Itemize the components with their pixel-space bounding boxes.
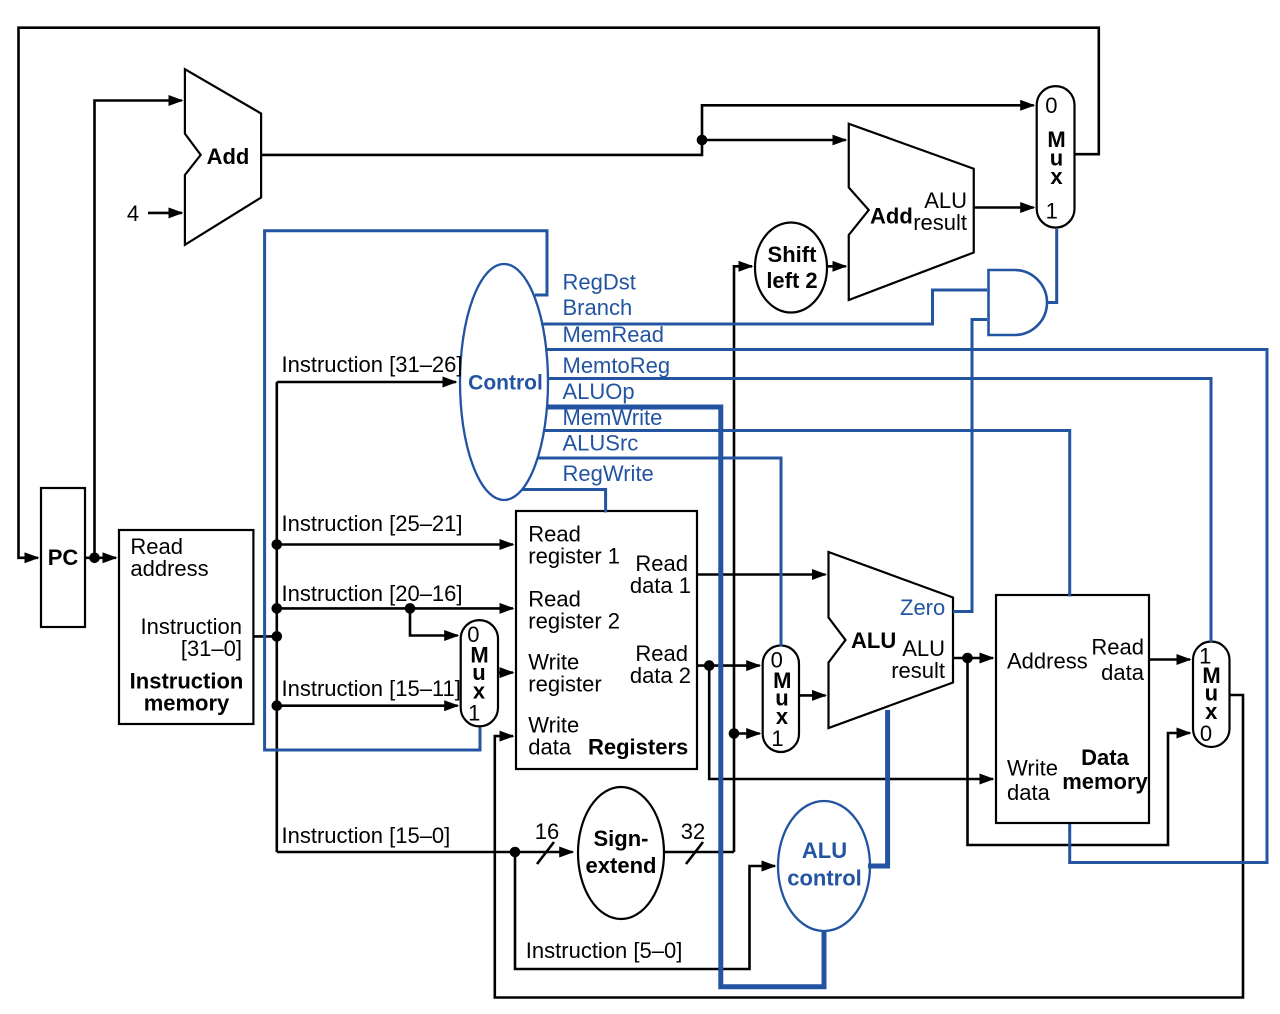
wire: ALU result to data memory Address	[953, 657, 993, 660]
svg-text:data: data	[528, 735, 572, 760]
svg-text:MemRead: MemRead	[563, 322, 664, 347]
wire: ALUSrc to mux M4 select	[538, 458, 781, 647]
wire: Read data to mux M6 input 1	[1149, 658, 1190, 661]
wire: Branch to AND gate	[541, 290, 987, 324]
svg-text:memory: memory	[144, 691, 230, 716]
junction: bus Instruction [25-21]	[272, 539, 283, 550]
wire: to mux M4 input 1	[734, 732, 760, 735]
wire: Instruction [15-11] to mux M5 input 1	[277, 704, 458, 707]
registers	[516, 511, 697, 769]
svg-text:data: data	[1007, 780, 1051, 805]
svg-text:data: data	[1101, 660, 1145, 685]
svg-text:Add: Add	[870, 204, 913, 229]
ALU control	[778, 801, 870, 931]
svg-text:16: 16	[535, 819, 559, 844]
svg-text:data 2: data 2	[630, 663, 691, 688]
svg-text:Instruction [20–16]: Instruction [20–16]	[282, 581, 463, 606]
junction: Instruction [20-16] branch	[405, 603, 416, 614]
shift left 2	[755, 223, 827, 313]
wire: PC to instruction memory	[85, 556, 116, 559]
wire: constant 4 into Add	[148, 212, 182, 215]
wire: Read data 2 to data memory Write data	[709, 666, 993, 779]
svg-text:Instruction [15–0]: Instruction [15–0]	[282, 823, 451, 848]
svg-text:MemtoReg: MemtoReg	[563, 353, 671, 378]
svg-text:left 2: left 2	[766, 268, 817, 293]
svg-text:Zero: Zero	[900, 595, 945, 620]
wire: Instruction [20-16] to Read register 2	[277, 607, 513, 610]
control unit	[460, 264, 548, 500]
wire: MemWrite to data memory	[544, 431, 1070, 597]
mux M4 (ALU source mux)	[763, 646, 799, 753]
svg-text:Instruction [15–11]: Instruction [15–11]	[282, 676, 461, 701]
wire: sign-extend to shift left 2	[734, 266, 752, 852]
wire: MemtoReg to mux M6 select	[547, 379, 1211, 643]
svg-text:MemWrite: MemWrite	[563, 405, 663, 430]
svg-text:ALU: ALU	[802, 838, 847, 863]
junction: PC output	[89, 553, 100, 564]
data memory	[996, 595, 1149, 823]
wire: Instruction [31-26] to Control	[277, 381, 456, 384]
wire: Read data 1 to ALU	[697, 573, 826, 576]
wire: RegDst to mux M5 select	[265, 231, 547, 750]
sign-extend	[578, 787, 664, 919]
mux M6 (write-back mux)	[1193, 642, 1230, 748]
svg-text:register 2: register 2	[528, 609, 620, 634]
adder Add2 (branch target)	[849, 124, 974, 300]
svg-text:ALU: ALU	[851, 628, 896, 653]
junction: bus Instruction [15-11]	[272, 700, 283, 711]
svg-text:register: register	[528, 672, 601, 697]
wire: Add output PC+4 to mux M1 input 0	[261, 105, 1034, 155]
wire: MemRead to data memory	[545, 350, 1267, 863]
svg-text:Instruction [25–21]: Instruction [25–21]	[282, 511, 463, 536]
mux M5 (write register mux)	[461, 620, 498, 726]
wire: AND gate to mux M1 select	[1047, 229, 1057, 303]
svg-text:0: 0	[1200, 721, 1212, 746]
svg-text:Read: Read	[1091, 635, 1144, 660]
wire: sign-extend output	[664, 851, 734, 854]
svg-text:memory: memory	[1062, 769, 1148, 794]
wire: instruction memory output	[253, 635, 276, 638]
svg-text:Write: Write	[1007, 756, 1058, 781]
wire: instruction bus vertical	[275, 382, 278, 852]
wire: mux M6 output write-back to Write data	[495, 695, 1243, 998]
svg-text:Instruction [31–26]: Instruction [31–26]	[282, 352, 463, 377]
svg-text:Add: Add	[207, 144, 250, 169]
svg-text:1: 1	[1046, 198, 1058, 223]
junction: sign-extend branch to mux M4	[729, 728, 740, 739]
wire: Zero to AND gate	[953, 320, 987, 612]
wire: ALU control to ALU (thick)	[868, 710, 888, 866]
svg-text:result: result	[891, 658, 945, 683]
svg-text:Control: Control	[468, 372, 543, 395]
and gate	[989, 270, 1048, 335]
junction: Read data 2 branch	[704, 660, 715, 671]
svg-text:Shift: Shift	[768, 242, 818, 267]
wire: ALUOp to ALU control (thick)	[546, 407, 824, 987]
bus width slash 32	[686, 842, 703, 864]
ALU	[829, 552, 954, 728]
wire: PC+4 to Add2 top input	[702, 139, 846, 142]
svg-text:RegWrite: RegWrite	[563, 461, 654, 486]
svg-text:address: address	[130, 556, 208, 581]
junction: bus at IM output	[272, 631, 283, 642]
PC	[41, 488, 85, 627]
junction: ALU result branch	[962, 653, 973, 664]
svg-text:0: 0	[1045, 93, 1057, 118]
svg-text:control: control	[787, 866, 862, 891]
wire: mux M1 output to PC (top frame loop)	[19, 28, 1099, 558]
svg-text:ALUOp: ALUOp	[563, 379, 635, 404]
wire: Instruction [20-16] to mux M5 input 0	[410, 608, 458, 635]
svg-text:32: 32	[681, 819, 705, 844]
mux M1 (PC source mux)	[1037, 86, 1075, 228]
svg-text:ALUSrc: ALUSrc	[563, 430, 639, 455]
junction: bus Instruction [20-16]	[272, 603, 283, 614]
svg-text:Branch: Branch	[563, 295, 633, 320]
svg-text:1: 1	[771, 726, 783, 751]
wire: RegWrite to registers	[522, 490, 606, 513]
svg-text:data 1: data 1	[630, 573, 691, 598]
junction: Instruction [15-0] branch	[510, 847, 521, 858]
svg-text:1: 1	[468, 700, 480, 725]
svg-text:Instruction [5–0]: Instruction [5–0]	[526, 938, 683, 963]
adder Add (PC+4)	[185, 69, 261, 245]
svg-text:[31–0]: [31–0]	[181, 636, 242, 661]
svg-text:4: 4	[127, 201, 139, 226]
wire: mux M4 to ALU	[799, 694, 826, 697]
wire: Add2 output to mux M1 input 1	[974, 206, 1034, 209]
wire: PC up to Add	[95, 101, 182, 558]
wire: Instruction [5-0] to ALU control	[515, 852, 775, 969]
svg-text:extend: extend	[586, 853, 657, 878]
svg-text:PC: PC	[48, 545, 79, 570]
svg-text:register 1: register 1	[528, 544, 620, 569]
svg-text:Sign-: Sign-	[594, 826, 649, 851]
svg-text:RegDst: RegDst	[563, 269, 636, 294]
svg-text:Data: Data	[1081, 745, 1129, 770]
wire: ALU result to mux M6 input 0	[968, 658, 1191, 845]
junction: PC+4 branch	[697, 135, 708, 146]
svg-text:Registers: Registers	[588, 735, 688, 760]
svg-text:x: x	[1050, 164, 1063, 189]
wire: mux M5 to Write register	[498, 671, 513, 674]
bus width slash 16	[537, 842, 554, 864]
svg-text:Address: Address	[1007, 649, 1088, 674]
wire: Instruction [25-21] to Read register 1	[277, 543, 513, 546]
wire: Instruction [15-0] to sign-extend	[277, 851, 573, 854]
svg-text:result: result	[913, 210, 967, 235]
instruction memory	[119, 530, 253, 724]
wire: shift left 2 to Add2	[827, 265, 846, 268]
wire: Read data 2 to mux M4 input 0	[697, 664, 760, 667]
